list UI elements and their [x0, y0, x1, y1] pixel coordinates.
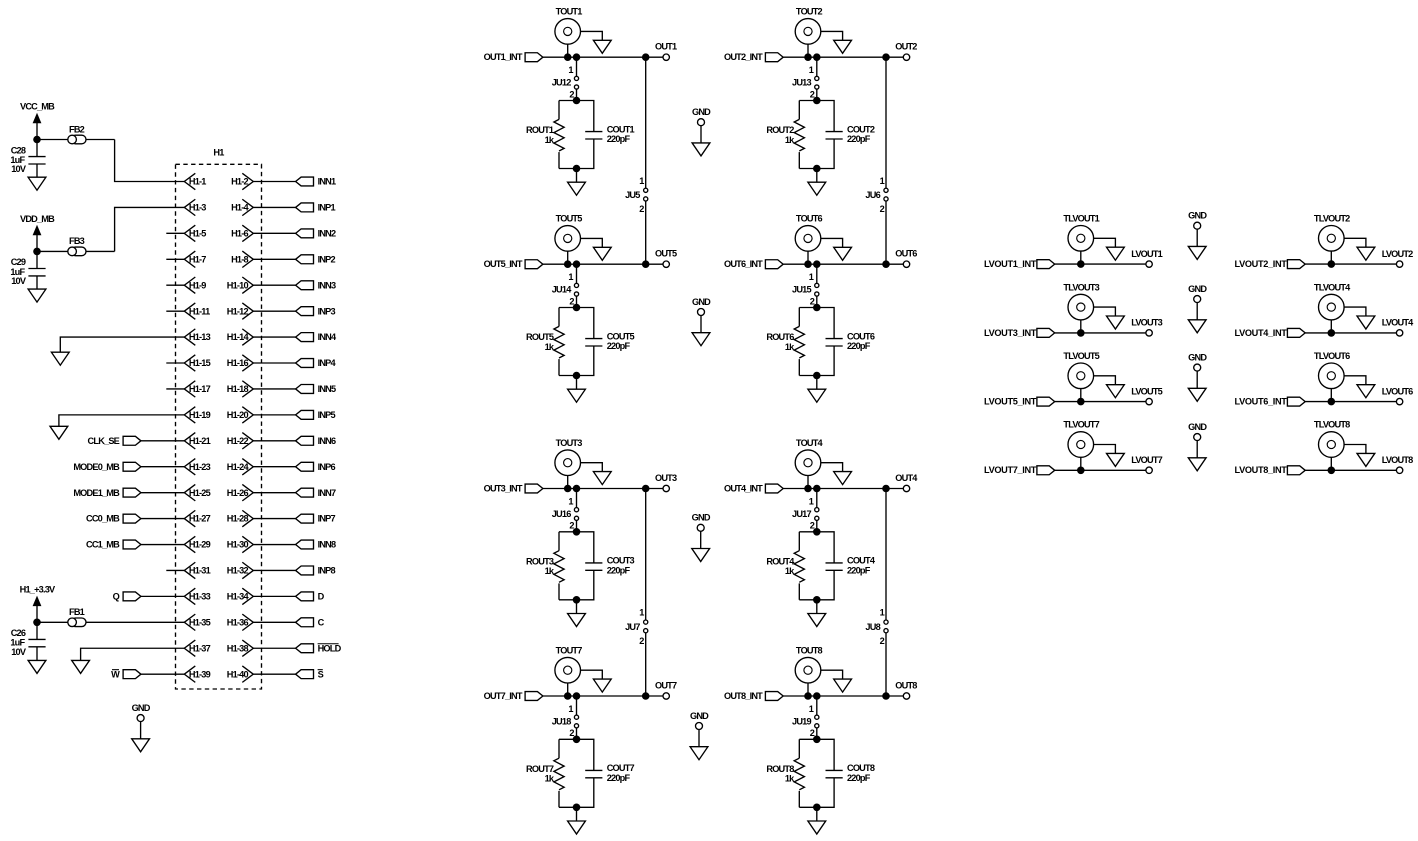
svg-text:JU12: JU12: [552, 78, 571, 88]
svg-text:LVOUT8: LVOUT8: [1382, 455, 1413, 465]
svg-text:H1-25: H1-25: [189, 488, 211, 498]
svg-text:W: W: [111, 669, 120, 679]
svg-text:H1-11: H1-11: [189, 306, 210, 316]
svg-text:OUT5_INT: OUT5_INT: [484, 259, 523, 269]
svg-text:H1-20: H1-20: [227, 410, 249, 420]
svg-text:INP2: INP2: [318, 254, 336, 264]
svg-text:OUT7_INT: OUT7_INT: [484, 691, 523, 701]
svg-text:H1: H1: [213, 148, 224, 158]
svg-text:TOUT6: TOUT6: [796, 214, 823, 224]
svg-text:OUT2_INT: OUT2_INT: [724, 52, 763, 62]
svg-text:H1-17: H1-17: [189, 384, 211, 394]
svg-text:JU19: JU19: [792, 716, 811, 726]
svg-text:OUT8_INT: OUT8_INT: [724, 691, 763, 701]
svg-text:JU14: JU14: [552, 285, 572, 295]
svg-text:H1-40: H1-40: [227, 669, 249, 679]
svg-text:LVOUT7: LVOUT7: [1131, 455, 1162, 465]
svg-text:H1-34: H1-34: [227, 591, 250, 601]
svg-text:ROUT8: ROUT8: [766, 764, 794, 774]
svg-text:TOUT1: TOUT1: [556, 7, 583, 17]
svg-text:TOUT3: TOUT3: [556, 438, 583, 448]
svg-text:H1-14: H1-14: [227, 332, 250, 342]
svg-text:JU13: JU13: [792, 78, 811, 88]
svg-text:CC1_MB: CC1_MB: [86, 540, 120, 550]
svg-text:1: 1: [880, 176, 885, 186]
svg-text:INP7: INP7: [318, 514, 336, 524]
svg-text:H1-13: H1-13: [189, 332, 211, 342]
svg-text:LVOUT2_INT: LVOUT2_INT: [1235, 259, 1288, 269]
svg-text:LVOUT4_INT: LVOUT4_INT: [1235, 328, 1288, 338]
svg-text:JU7: JU7: [625, 622, 640, 632]
svg-text:INN1: INN1: [318, 177, 336, 187]
svg-text:2: 2: [639, 204, 644, 214]
svg-text:COUT4: COUT4: [847, 556, 876, 566]
svg-text:H1-26: H1-26: [227, 488, 249, 498]
svg-text:LVOUT3_INT: LVOUT3_INT: [984, 328, 1037, 338]
svg-text:Q: Q: [113, 591, 120, 601]
svg-text:LVOUT5: LVOUT5: [1131, 386, 1162, 396]
svg-text:INN3: INN3: [318, 280, 336, 290]
svg-text:INP6: INP6: [318, 462, 336, 472]
svg-text:COUT5: COUT5: [607, 331, 635, 341]
svg-text:OUT3_INT: OUT3_INT: [484, 483, 523, 493]
svg-text:1: 1: [639, 176, 644, 186]
svg-text:H1-10: H1-10: [227, 280, 249, 290]
svg-text:C28: C28: [11, 145, 26, 155]
svg-text:OUT6_INT: OUT6_INT: [724, 259, 763, 269]
svg-text:H1-32: H1-32: [227, 566, 249, 576]
svg-text:H1-28: H1-28: [227, 514, 249, 524]
svg-text:TLVOUT7: TLVOUT7: [1063, 420, 1099, 430]
svg-text:H1-7: H1-7: [189, 254, 206, 264]
svg-text:H1_+3.3V: H1_+3.3V: [20, 584, 56, 594]
svg-text:H1-4: H1-4: [231, 203, 249, 213]
svg-text:LVOUT1: LVOUT1: [1131, 249, 1162, 259]
svg-text:JU8: JU8: [865, 622, 880, 632]
svg-text:1: 1: [880, 608, 885, 618]
svg-text:TOUT5: TOUT5: [556, 214, 583, 224]
svg-text:FB1: FB1: [69, 607, 85, 617]
svg-text:H1-3: H1-3: [189, 203, 206, 213]
svg-text:H1-27: H1-27: [189, 514, 211, 524]
svg-text:LVOUT4: LVOUT4: [1382, 318, 1414, 328]
svg-text:INN6: INN6: [318, 436, 336, 446]
svg-text:COUT3: COUT3: [607, 556, 635, 566]
svg-text:H1-39: H1-39: [189, 669, 211, 679]
svg-text:COUT1: COUT1: [607, 124, 635, 134]
svg-text:H1-31: H1-31: [189, 566, 211, 576]
svg-text:COUT7: COUT7: [607, 763, 635, 773]
svg-text:TLVOUT8: TLVOUT8: [1314, 420, 1350, 430]
svg-text:H1-33: H1-33: [189, 591, 211, 601]
svg-text:ROUT1: ROUT1: [526, 125, 554, 135]
svg-text:ROUT4: ROUT4: [766, 556, 795, 566]
svg-text:ROUT3: ROUT3: [526, 556, 554, 566]
svg-text:TLVOUT4: TLVOUT4: [1314, 282, 1351, 292]
svg-text:COUT8: COUT8: [847, 763, 875, 773]
svg-text:TOUT7: TOUT7: [556, 646, 583, 656]
svg-text:ROUT2: ROUT2: [766, 125, 794, 135]
svg-text:COUT6: COUT6: [847, 331, 875, 341]
svg-text:JU5: JU5: [625, 190, 640, 200]
svg-text:C29: C29: [11, 257, 26, 267]
svg-text:TLVOUT5: TLVOUT5: [1063, 351, 1099, 361]
svg-text:LVOUT7_INT: LVOUT7_INT: [984, 465, 1037, 475]
svg-text:JU18: JU18: [552, 716, 571, 726]
svg-text:INN4: INN4: [318, 332, 337, 342]
svg-text:H1-35: H1-35: [189, 617, 211, 627]
svg-text:OUT4: OUT4: [895, 473, 918, 483]
svg-text:TOUT8: TOUT8: [796, 646, 823, 656]
svg-text:OUT8: OUT8: [895, 681, 917, 691]
svg-text:INP3: INP3: [318, 306, 336, 316]
svg-text:LVOUT8_INT: LVOUT8_INT: [1235, 465, 1288, 475]
svg-text:INP4: INP4: [318, 358, 337, 368]
svg-text:OUT2: OUT2: [895, 42, 917, 52]
svg-text:ROUT7: ROUT7: [526, 764, 554, 774]
svg-text:H1-21: H1-21: [189, 436, 211, 446]
svg-text:2: 2: [639, 636, 644, 646]
svg-text:INP8: INP8: [318, 566, 336, 576]
svg-text:H1-22: H1-22: [227, 436, 249, 446]
svg-text:JU17: JU17: [792, 509, 811, 519]
svg-text:LVOUT6: LVOUT6: [1382, 386, 1413, 396]
svg-text:INN5: INN5: [318, 384, 336, 394]
svg-text:OUT3: OUT3: [655, 473, 677, 483]
svg-text:MODE0_MB: MODE0_MB: [73, 462, 120, 472]
svg-text:TLVOUT1: TLVOUT1: [1063, 214, 1099, 224]
svg-text:H1-36: H1-36: [227, 617, 249, 627]
svg-text:OUT4_INT: OUT4_INT: [724, 483, 763, 493]
svg-text:H1-18: H1-18: [227, 384, 249, 394]
svg-text:LVOUT5_INT: LVOUT5_INT: [984, 397, 1037, 407]
svg-text:C26: C26: [11, 628, 26, 638]
svg-text:1: 1: [639, 608, 644, 618]
svg-text:TLVOUT3: TLVOUT3: [1063, 282, 1099, 292]
svg-text:H1-1: H1-1: [189, 177, 206, 187]
svg-text:H1-16: H1-16: [227, 358, 249, 368]
svg-text:H1-19: H1-19: [189, 410, 211, 420]
svg-text:H1-15: H1-15: [189, 358, 211, 368]
svg-text:FB2: FB2: [69, 124, 85, 134]
svg-text:OUT6: OUT6: [895, 249, 917, 259]
svg-text:LVOUT3: LVOUT3: [1131, 318, 1162, 328]
svg-text:TLVOUT6: TLVOUT6: [1314, 351, 1350, 361]
svg-text:LVOUT1_INT: LVOUT1_INT: [984, 259, 1037, 269]
svg-text:COUT2: COUT2: [847, 124, 875, 134]
svg-text:H1-6: H1-6: [231, 228, 248, 238]
svg-text:INN8: INN8: [318, 540, 336, 550]
svg-text:TLVOUT2: TLVOUT2: [1314, 214, 1350, 224]
svg-text:H1-24: H1-24: [227, 462, 250, 472]
svg-text:INN7: INN7: [318, 488, 336, 498]
svg-text:LVOUT2: LVOUT2: [1382, 249, 1413, 259]
svg-text:H1-38: H1-38: [227, 643, 249, 653]
svg-text:10V: 10V: [11, 276, 27, 286]
svg-text:TOUT2: TOUT2: [796, 7, 823, 17]
svg-text:OUT7: OUT7: [655, 681, 677, 691]
svg-text:H1-12: H1-12: [227, 306, 249, 316]
svg-text:H1-8: H1-8: [231, 254, 248, 264]
svg-text:VDD_MB: VDD_MB: [20, 214, 55, 224]
svg-text:JU6: JU6: [865, 190, 880, 200]
svg-text:H1-30: H1-30: [227, 540, 249, 550]
svg-text:H1-37: H1-37: [189, 643, 211, 653]
svg-text:H1-23: H1-23: [189, 462, 211, 472]
svg-text:MODE1_MB: MODE1_MB: [73, 488, 120, 498]
svg-text:2: 2: [880, 636, 885, 646]
svg-text:2: 2: [880, 204, 885, 214]
svg-text:INN2: INN2: [318, 228, 336, 238]
svg-text:JU15: JU15: [792, 285, 811, 295]
svg-text:H1-29: H1-29: [189, 540, 211, 550]
svg-text:10V: 10V: [11, 164, 27, 174]
svg-text:HOLD: HOLD: [318, 643, 342, 653]
svg-text:TOUT4: TOUT4: [796, 438, 824, 448]
svg-text:H1-2: H1-2: [231, 177, 248, 187]
svg-text:CC0_MB: CC0_MB: [86, 514, 120, 524]
svg-text:LVOUT6_INT: LVOUT6_INT: [1235, 397, 1288, 407]
svg-text:JU16: JU16: [552, 509, 571, 519]
svg-text:OUT1: OUT1: [655, 42, 677, 52]
svg-text:H1-9: H1-9: [189, 280, 206, 290]
svg-text:INP5: INP5: [318, 410, 336, 420]
svg-text:10V: 10V: [11, 647, 27, 657]
svg-text:CLK_SE: CLK_SE: [88, 436, 120, 446]
svg-text:VCC_MB: VCC_MB: [20, 101, 55, 111]
svg-text:OUT1_INT: OUT1_INT: [484, 52, 523, 62]
svg-text:OUT5: OUT5: [655, 249, 677, 259]
svg-text:S: S: [318, 669, 324, 679]
svg-text:ROUT5: ROUT5: [526, 332, 554, 342]
svg-text:ROUT6: ROUT6: [766, 332, 794, 342]
svg-text:FB3: FB3: [69, 236, 85, 246]
svg-text:INP1: INP1: [318, 203, 336, 213]
svg-text:H1-5: H1-5: [189, 228, 206, 238]
